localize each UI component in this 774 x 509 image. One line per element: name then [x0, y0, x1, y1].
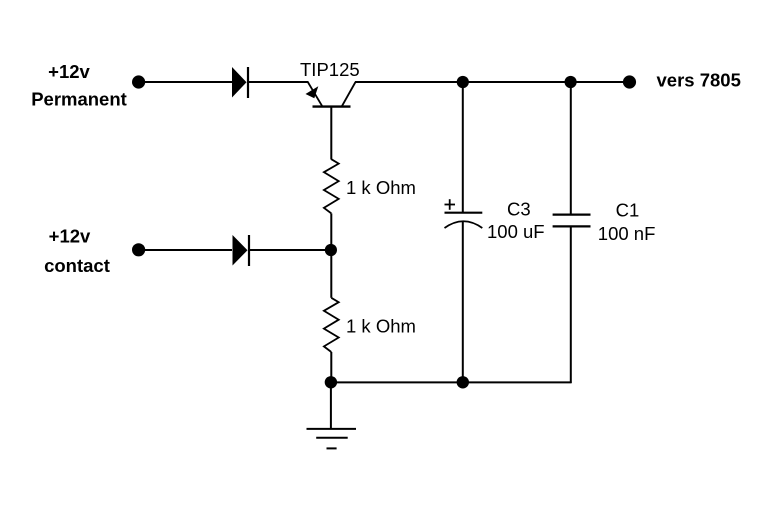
svg-text:100 uF: 100 uF	[487, 221, 545, 242]
diode D1	[232, 67, 248, 98]
node +12v contact label	[44, 226, 110, 277]
svg-text:TIP125: TIP125	[300, 59, 360, 80]
resistor R1 1 k Ohm	[324, 159, 339, 213]
wire bottom rail	[331, 381, 572, 383]
svg-text:1 k Ohm: 1 k Ohm	[346, 316, 416, 337]
svg-text:Permanent: Permanent	[31, 88, 127, 109]
junction dot bottom rail / C3	[457, 376, 469, 388]
wire D1 to Q1 emitter	[249, 81, 308, 83]
diode D2	[233, 235, 250, 266]
capacitor C1 100 nF	[553, 215, 591, 227]
svg-text:100 nF: 100 nF	[598, 223, 656, 244]
node dot output vers 7805	[623, 75, 636, 88]
wire input Permanent to D1	[144, 81, 232, 83]
wire R1 to junction contact	[330, 213, 332, 250]
node dot input Permanent	[132, 75, 145, 88]
resistor R2 1 k Ohm	[324, 298, 339, 352]
svg-text:+12v: +12v	[49, 226, 91, 247]
node +12v Permanent label	[31, 61, 127, 110]
junction dot ground rail left	[325, 376, 337, 388]
junction dot top rail / C3	[457, 76, 469, 88]
wire Q1 collector to output node (top rail)	[355, 81, 629, 83]
ground	[307, 429, 357, 449]
transistor Q1 TIP125	[306, 82, 356, 160]
wire input contact to D2	[144, 249, 232, 251]
wire C1 to bottom rail corner	[570, 226, 572, 383]
wire R2 to ground junction	[330, 352, 332, 382]
svg-text:contact: contact	[44, 255, 110, 276]
wire top rail to C3	[462, 82, 464, 213]
node dot input contact	[132, 243, 145, 256]
wire C3 to bottom rail	[462, 222, 464, 383]
capacitor C3 100 uF polarized	[445, 199, 483, 228]
junction dot contact / divider	[325, 244, 337, 256]
svg-text:+12v: +12v	[48, 61, 90, 82]
wire D2 to junction	[250, 249, 331, 251]
svg-text:C3: C3	[507, 198, 531, 219]
wire junction to ground symbol	[330, 382, 332, 429]
junction dot top rail / C1	[565, 76, 577, 88]
wire junction to R2	[330, 250, 332, 298]
svg-text:C1: C1	[616, 200, 640, 221]
wire top rail to C1	[570, 82, 572, 215]
svg-text:vers 7805: vers 7805	[657, 70, 741, 91]
svg-text:1 k Ohm: 1 k Ohm	[346, 177, 416, 198]
